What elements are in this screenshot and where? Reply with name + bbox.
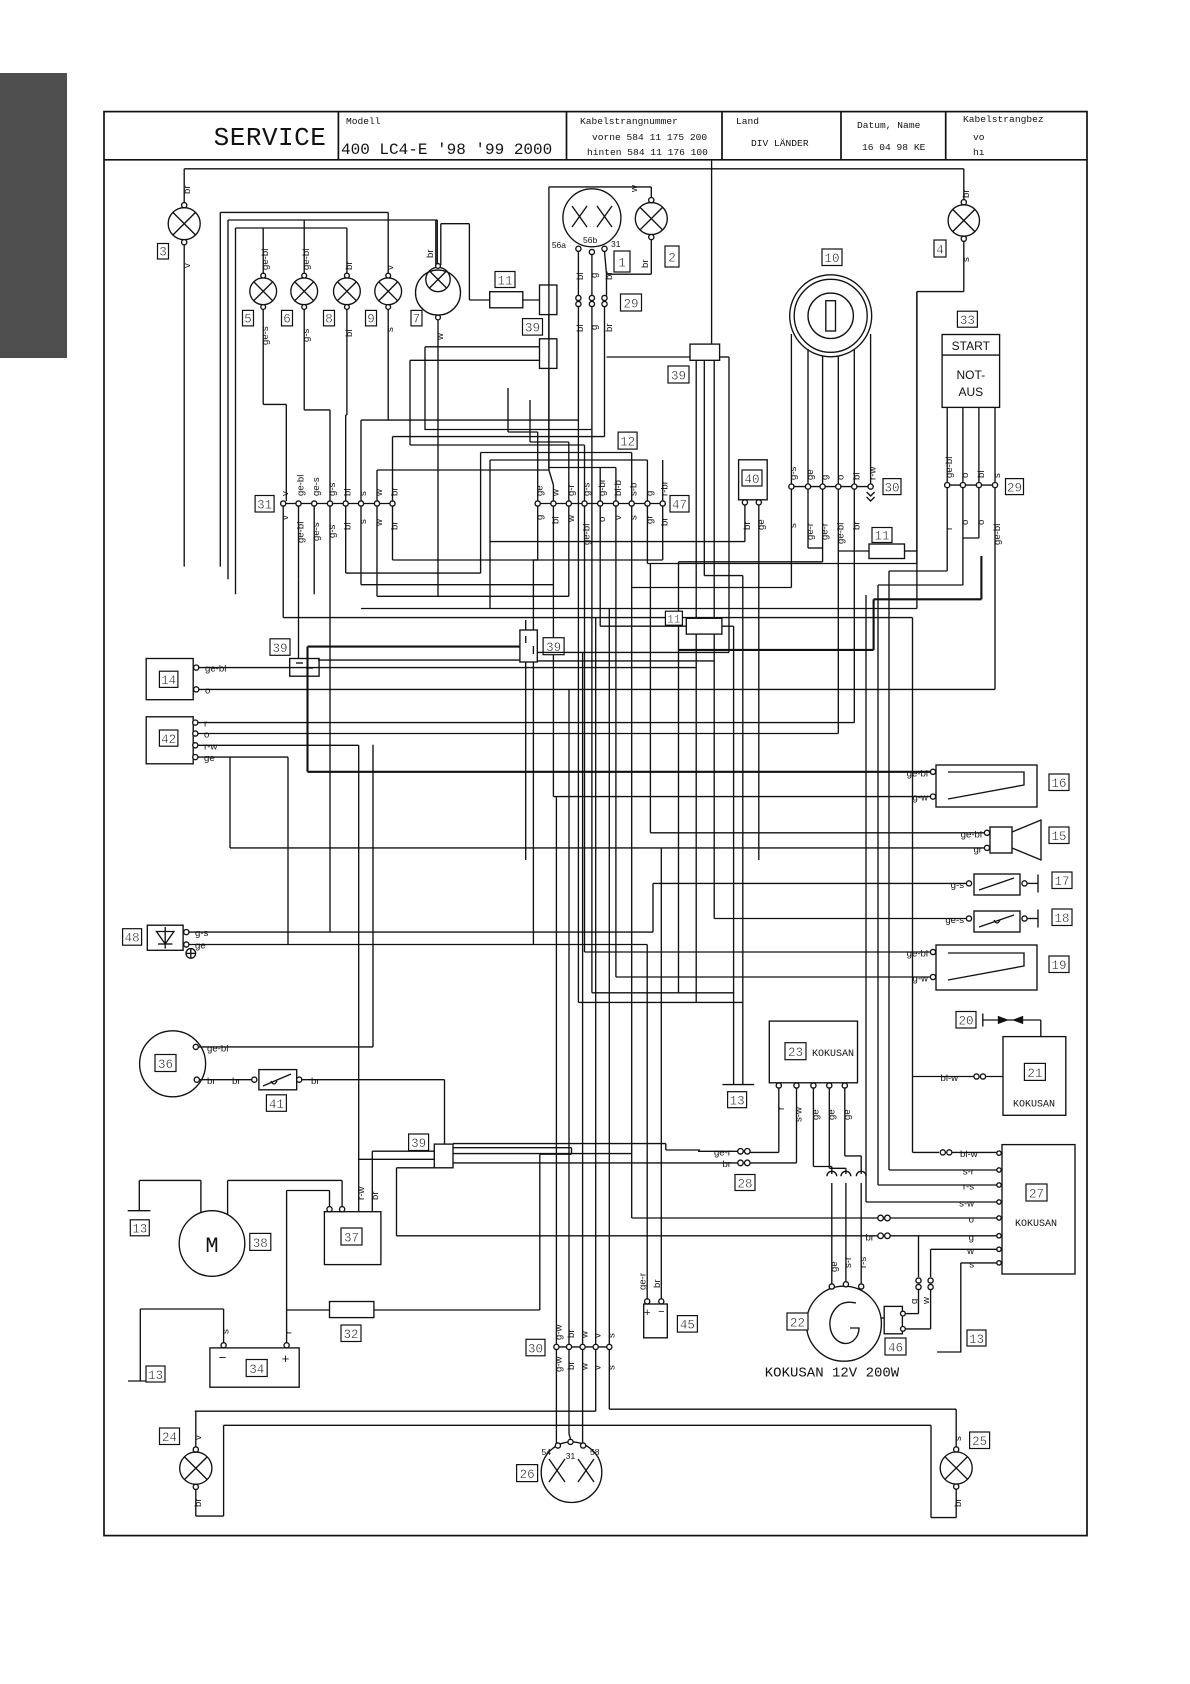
- wire ground13mid a: [592, 992, 734, 994]
- svg-text:r-s: r-s: [963, 1182, 974, 1193]
- svg-text:ge-s: ge-s: [311, 522, 322, 541]
- svg-text:ge: ge: [829, 1261, 840, 1272]
- wire 36 ge-bl vertical: [372, 745, 374, 1047]
- svg-text:br: br: [566, 1361, 577, 1370]
- svg-text:br: br: [311, 1076, 320, 1087]
- wire 14 ge-bl: [196, 667, 696, 669]
- svg-text:30: 30: [528, 1342, 543, 1356]
- row12 below wires: [526, 506, 917, 977]
- side tab: [0, 73, 67, 358]
- wire 27 s-r: [889, 1169, 999, 1171]
- svg-text:SERVICE: SERVICE: [214, 123, 327, 153]
- svg-text:24: 24: [162, 1431, 177, 1445]
- connector 39-4: [520, 630, 537, 662]
- connector 39-2: [540, 339, 557, 369]
- num box 30 top: [883, 479, 901, 496]
- svg-text:w: w: [580, 1363, 591, 1371]
- wire 39-4 right a: [537, 651, 729, 653]
- svg-text:5: 5: [244, 313, 252, 327]
- box33 text: [952, 339, 991, 399]
- svg-text:37: 37: [344, 1232, 359, 1246]
- svg-text:31: 31: [257, 499, 272, 513]
- num box 11 mid: [665, 611, 682, 626]
- svg-text:v: v: [593, 1365, 604, 1370]
- wire 27 s to ground: [937, 1263, 997, 1352]
- lamp L2: [549, 187, 667, 470]
- box 27 CDI unit: [997, 1145, 1075, 1274]
- svg-text:+: +: [282, 1351, 290, 1366]
- svg-text:ge: ge: [756, 519, 767, 530]
- svg-text:r-w: r-w: [868, 467, 879, 480]
- lamp L9: [361, 273, 402, 501]
- svg-text:bl: bl: [851, 473, 862, 480]
- num box 2: [665, 246, 679, 267]
- lamp L4: [917, 169, 980, 564]
- svg-text:ge-bl: ge-bl: [205, 664, 226, 675]
- wire 27 s-w: [865, 595, 867, 1202]
- svg-text:w: w: [566, 515, 577, 523]
- svg-text:KOKUSAN: KOKUSAN: [1013, 1100, 1055, 1111]
- svg-text:39: 39: [411, 1137, 426, 1151]
- num box 12: [618, 432, 637, 450]
- svg-text:Land: Land: [736, 116, 759, 127]
- svg-text:ge-bl: ge-bl: [835, 523, 846, 544]
- svg-text:s: s: [969, 1259, 974, 1270]
- wire 48 ge: [186, 944, 647, 946]
- num box 7: [411, 310, 422, 326]
- wire 42-o: [195, 733, 838, 735]
- svg-text:33: 33: [960, 314, 975, 328]
- svg-text:bl: bl: [343, 489, 354, 496]
- svg-text:w: w: [580, 1331, 591, 1339]
- svg-text:s-r: s-r: [843, 1256, 854, 1268]
- svg-text:r-s: r-s: [858, 1257, 869, 1268]
- svg-text:ge-s: ge-s: [311, 477, 322, 496]
- fuse 32: [287, 1302, 540, 1318]
- svg-text:ge-bl: ge-bl: [296, 475, 307, 496]
- svg-text:br: br: [232, 1076, 241, 1087]
- svg-text:hinten 584 11 176 100: hinten 584 11 176 100: [587, 147, 708, 158]
- svg-text:w: w: [550, 489, 561, 497]
- svg-text:g: g: [969, 1232, 974, 1243]
- svg-text:39: 39: [546, 641, 561, 655]
- svg-text:g-s: g-s: [788, 466, 799, 480]
- generator 22: [806, 1171, 881, 1361]
- svg-text:400 LC4-E '98 '99 2000: 400 LC4-E '98 '99 2000: [341, 141, 552, 159]
- svg-text:ge: ge: [805, 469, 816, 480]
- battery 34: [128, 1191, 299, 1388]
- svg-text:g-s: g-s: [195, 928, 209, 939]
- svg-text:v: v: [593, 1333, 604, 1338]
- svg-text:40: 40: [744, 473, 759, 487]
- svg-text:KOKUSAN 12V 200W: KOKUSAN 12V 200W: [765, 1366, 900, 1382]
- box 21 CDI: [913, 618, 1066, 1155]
- svg-text:bl: bl: [575, 273, 586, 280]
- svg-text:g-br: g-br: [597, 478, 608, 496]
- svg-text:21: 21: [1027, 1067, 1042, 1081]
- svg-text:Datum, Name: Datum, Name: [857, 120, 921, 131]
- svg-text:41: 41: [269, 1098, 284, 1112]
- num box 39 b: [668, 366, 689, 384]
- wire 18 ge-s: [714, 918, 966, 920]
- svg-text:br: br: [193, 1498, 204, 1507]
- svg-text:br: br: [660, 517, 671, 526]
- lamp L6: [291, 273, 330, 501]
- svg-text:12: 12: [620, 436, 635, 450]
- num box 33: [957, 311, 977, 328]
- connector row 29 left: [361, 295, 607, 1002]
- svg-text:ge-r: ge-r: [638, 1272, 649, 1290]
- svg-text:o: o: [976, 520, 987, 525]
- wire 15 ge-bl: [650, 832, 984, 834]
- svg-text:31: 31: [566, 1451, 576, 1461]
- svg-text:58: 58: [590, 1447, 600, 1457]
- svg-text:v: v: [280, 491, 291, 496]
- starter motor M 38: [179, 1180, 342, 1276]
- wire v-line long: [283, 617, 912, 619]
- svg-text:bl: bl: [343, 523, 354, 530]
- svg-text:17: 17: [1054, 875, 1069, 889]
- num box 47: [670, 496, 689, 513]
- wire 19 ge-bl: [585, 951, 931, 953]
- svg-text:o: o: [205, 685, 210, 696]
- svg-text:br: br: [953, 1498, 964, 1507]
- svg-text:ge: ge: [842, 1109, 853, 1120]
- num box 39 d: [543, 638, 564, 656]
- svg-text:Kabelstrangbez: Kabelstrangbez: [963, 114, 1044, 125]
- svg-text:11: 11: [667, 615, 681, 627]
- num box 5: [243, 310, 254, 326]
- connector row 30 bottom: [195, 609, 956, 1444]
- brake switch 41: [252, 1070, 445, 1145]
- svg-text:13: 13: [132, 1223, 147, 1237]
- lamp L3: [168, 169, 200, 567]
- svg-text:ge-bl: ge-bl: [944, 457, 955, 478]
- svg-text:Modell: Modell: [346, 116, 381, 127]
- svg-text:14: 14: [161, 674, 176, 688]
- svg-text:g: g: [909, 1299, 920, 1304]
- connector 39-6: [607, 344, 743, 1085]
- num box 39 c: [270, 639, 290, 656]
- svg-text:29: 29: [1007, 481, 1022, 495]
- svg-text:s: s: [221, 1329, 232, 1334]
- svg-text:−: −: [658, 1306, 664, 1318]
- svg-text:ge-bl: ge-bl: [296, 522, 307, 543]
- labels 40: [742, 519, 767, 530]
- svg-text:ge-bl: ge-bl: [582, 524, 593, 545]
- svg-text:br: br: [865, 1232, 874, 1243]
- connector row 31: [281, 501, 396, 506]
- svg-text:Kabelstrangnummer: Kabelstrangnummer: [580, 116, 678, 127]
- svg-text:br: br: [742, 521, 753, 530]
- svg-text:36: 36: [158, 1058, 173, 1072]
- svg-text:g-r: g-r: [566, 483, 577, 496]
- svg-text:KOKUSAN: KOKUSAN: [1015, 1219, 1057, 1230]
- svg-text:br: br: [390, 521, 401, 530]
- svg-text:ge-r: ge-r: [805, 522, 816, 540]
- svg-text:ge-s: ge-s: [945, 915, 964, 926]
- svg-text:19: 19: [1051, 959, 1066, 973]
- svg-text:g-s: g-s: [951, 880, 965, 891]
- lamp 24: [180, 1411, 931, 1516]
- svg-text:s: s: [385, 327, 396, 332]
- indicator 36: [140, 1031, 373, 1097]
- svg-text:s: s: [606, 1333, 617, 1338]
- svg-text:NOT-: NOT-: [956, 368, 985, 382]
- connector 39-3: [290, 659, 319, 677]
- svg-text:3: 3: [159, 246, 167, 260]
- labels row29 right: [944, 457, 1003, 545]
- svg-text:38: 38: [253, 1237, 268, 1251]
- svg-text:br: br: [604, 323, 615, 332]
- svg-text:g-w: g-w: [913, 974, 929, 985]
- regulator 46: [881, 1306, 905, 1333]
- svg-text:30: 30: [884, 481, 899, 495]
- box 40: [490, 460, 767, 860]
- svg-text:32: 32: [343, 1328, 358, 1342]
- lamp L8: [334, 273, 361, 501]
- connector 39-5: [359, 1144, 666, 1310]
- svg-text:s-w: s-w: [959, 1199, 974, 1210]
- svg-text:ge-bl: ge-bl: [992, 524, 1003, 545]
- thick ge-bl harness: [308, 556, 982, 772]
- svg-text:18: 18: [1054, 912, 1069, 926]
- svg-text:ge-bl: ge-bl: [907, 768, 928, 779]
- svg-text:hı: hı: [973, 147, 985, 158]
- svg-text:br: br: [182, 185, 193, 194]
- lamp L5: [250, 273, 286, 501]
- num box 6: [282, 310, 293, 326]
- num box 4: [934, 240, 946, 258]
- device 18 switch: [966, 910, 1038, 933]
- svg-text:br: br: [851, 521, 862, 530]
- header text: [214, 114, 1044, 159]
- labels headlight: [552, 185, 972, 332]
- svg-text:br: br: [640, 259, 651, 268]
- wire s-bus: [361, 608, 917, 610]
- svg-text:s: s: [953, 1436, 964, 1441]
- svg-text:s-w: s-w: [794, 1107, 805, 1122]
- wire nest above lamps: [220, 211, 388, 213]
- svg-text:10: 10: [824, 252, 839, 266]
- svg-text:25: 25: [972, 1435, 987, 1449]
- fuse 11 mid: [686, 618, 722, 634]
- svg-text:47: 47: [672, 499, 687, 513]
- svg-text:s: s: [961, 257, 972, 262]
- fuse 11 top: [469, 292, 539, 308]
- svg-text:o: o: [960, 520, 971, 525]
- svg-text:39: 39: [671, 370, 686, 384]
- lamp 25: [931, 1409, 972, 1517]
- svg-text:27: 27: [1029, 1188, 1044, 1202]
- svg-text:br: br: [652, 1279, 663, 1288]
- svg-text:w: w: [921, 1297, 932, 1305]
- svg-text:v: v: [280, 515, 291, 520]
- svg-text:ge-r: ge-r: [820, 522, 831, 540]
- wire 27 o with plug: [453, 588, 997, 1221]
- wire 48 g-s: [186, 931, 653, 933]
- num box 31: [255, 496, 274, 513]
- svg-text:br: br: [207, 1076, 216, 1087]
- box 23 CDI: [750, 1021, 861, 1174]
- svg-text:26: 26: [520, 1468, 535, 1482]
- svg-text:bl-w: bl-w: [941, 1073, 959, 1084]
- num box 40: [742, 470, 762, 487]
- svg-text:r-br: r-br: [660, 480, 671, 496]
- row12 above wires: [410, 388, 663, 501]
- svg-text:br: br: [390, 487, 401, 496]
- svg-text:r-w: r-w: [204, 741, 217, 752]
- svg-text:w: w: [629, 185, 640, 193]
- svg-text:g: g: [644, 491, 655, 496]
- box 48 diode: [147, 925, 195, 958]
- svg-text:vorne 584 11 175 200: vorne 584 11 175 200: [592, 132, 707, 143]
- box 42: [146, 717, 217, 764]
- svg-text:s: s: [358, 519, 369, 524]
- svg-text:ge: ge: [204, 753, 215, 764]
- svg-text:v: v: [385, 265, 396, 270]
- svg-text:v: v: [613, 515, 624, 520]
- svg-text:s-b: s-b: [629, 483, 640, 496]
- wire 42-r: [195, 722, 854, 724]
- svg-text:28: 28: [737, 1177, 752, 1191]
- svg-text:13: 13: [148, 1369, 163, 1383]
- fuse 11 right: [838, 544, 917, 559]
- row31 below wires: [283, 453, 663, 933]
- spark plug 20: [983, 1014, 1041, 1052]
- device 16 fuel level: [930, 765, 1037, 807]
- svg-text:ge: ge: [826, 1109, 837, 1120]
- svg-text:br: br: [344, 261, 355, 270]
- svg-text:gr: gr: [644, 515, 655, 524]
- svg-text:s: s: [358, 491, 369, 496]
- svg-text:s: s: [629, 515, 640, 520]
- svg-text:ge-s: ge-s: [260, 326, 271, 345]
- wire 45 br vertical: [660, 848, 662, 1299]
- svg-text:2: 2: [668, 252, 676, 266]
- ground 13 left-M: [128, 1180, 201, 1212]
- svg-text:ge-bl: ge-bl: [260, 249, 271, 270]
- svg-text:ge: ge: [535, 485, 546, 496]
- svg-text:ge-r: ge-r: [714, 1147, 732, 1158]
- battery 45 small: [644, 1299, 668, 1338]
- svg-text:KOKUSAN: KOKUSAN: [812, 1049, 854, 1060]
- svg-text:ge-bl: ge-bl: [907, 949, 928, 960]
- svg-text:s-r: s-r: [963, 1167, 975, 1178]
- svg-text:w: w: [374, 519, 385, 527]
- svg-text:−: −: [219, 1350, 227, 1365]
- num box 11 right: [872, 528, 892, 544]
- svg-text:w: w: [374, 489, 385, 497]
- svg-text:15: 15: [1051, 830, 1066, 844]
- wire 19 g-w: [616, 976, 930, 978]
- svg-text:o: o: [960, 473, 971, 478]
- svg-text:v: v: [193, 1435, 204, 1440]
- wire 42-ge: [195, 756, 288, 758]
- svg-text:v: v: [182, 263, 193, 268]
- wire lamp4-s vertical to s-bus: [916, 292, 918, 609]
- svg-text:bl-b: bl-b: [613, 480, 624, 496]
- svg-text:48: 48: [125, 932, 140, 946]
- svg-text:29: 29: [623, 297, 638, 311]
- svg-text:g: g: [589, 325, 600, 330]
- connector row 29 right: [878, 483, 998, 1186]
- svg-text:START: START: [952, 339, 991, 353]
- wire 16 g-w: [553, 796, 930, 798]
- svg-text:13: 13: [730, 1095, 745, 1109]
- svg-text:9: 9: [367, 313, 375, 327]
- svg-text:22: 22: [790, 1317, 805, 1331]
- svg-text:16 04 98 KE: 16 04 98 KE: [862, 142, 926, 153]
- labels row30 top: [788, 466, 879, 544]
- svg-text:o: o: [204, 730, 209, 741]
- svg-text:gr: gr: [973, 844, 982, 855]
- svg-text:g: g: [820, 475, 831, 480]
- svg-text:20: 20: [958, 1015, 973, 1029]
- device 19 fuel level 2: [930, 945, 1037, 990]
- svg-text:g-s: g-s: [301, 328, 312, 342]
- svg-text:56a: 56a: [552, 240, 566, 250]
- svg-text:s: s: [788, 523, 799, 528]
- svg-text:7: 7: [413, 313, 421, 327]
- svg-text:br: br: [961, 189, 972, 198]
- svg-text:bl: bl: [344, 330, 355, 337]
- svg-text:54: 54: [542, 1447, 552, 1457]
- svg-text:s: s: [992, 473, 1003, 478]
- wire 27 w: [903, 1236, 997, 1329]
- svg-text:+: +: [644, 1307, 650, 1319]
- svg-text:ge-bl: ge-bl: [301, 249, 312, 270]
- svg-text:11: 11: [874, 530, 889, 544]
- num box 29 right: [1006, 479, 1024, 496]
- plugs 28: [453, 1144, 750, 1166]
- svg-text:4: 4: [936, 244, 944, 258]
- svg-text:g-s: g-s: [327, 524, 338, 538]
- svg-text:g-s: g-s: [327, 482, 338, 496]
- svg-text:bl: bl: [550, 517, 561, 524]
- num box 10: [822, 249, 842, 266]
- svg-text:39: 39: [525, 322, 540, 336]
- svg-text:bl-w: bl-w: [960, 1149, 978, 1160]
- num box 11 top: [495, 272, 515, 289]
- wire ground13mid b: [578, 1001, 742, 1003]
- svg-text:g: g: [535, 515, 546, 520]
- wire br top long: [184, 168, 964, 170]
- svg-text:34: 34: [249, 1363, 264, 1377]
- ignition switch 10: [790, 275, 872, 484]
- svg-text:ge: ge: [810, 1109, 821, 1120]
- svg-text:w: w: [966, 1246, 974, 1257]
- box 14: [146, 659, 226, 700]
- svg-text:16: 16: [1051, 777, 1066, 791]
- svg-text:vo: vo: [973, 132, 985, 143]
- num box 1: [614, 251, 630, 272]
- labels row 31: [280, 475, 400, 543]
- svg-text:g: g: [589, 273, 600, 278]
- svg-text:ge-bl: ge-bl: [961, 829, 982, 840]
- svg-text:br: br: [604, 271, 615, 280]
- svg-text:8: 8: [325, 313, 333, 327]
- svg-text:bl: bl: [575, 325, 586, 332]
- svg-text:g-w: g-w: [553, 1356, 564, 1372]
- svg-text:bl: bl: [976, 471, 987, 478]
- wire 15 gr: [230, 847, 984, 849]
- svg-text:g-w: g-w: [553, 1324, 564, 1340]
- svg-text:M: M: [205, 1234, 218, 1259]
- device 17 switch: [966, 874, 1038, 895]
- svg-text:1: 1: [618, 257, 626, 271]
- svg-text:31: 31: [611, 239, 621, 249]
